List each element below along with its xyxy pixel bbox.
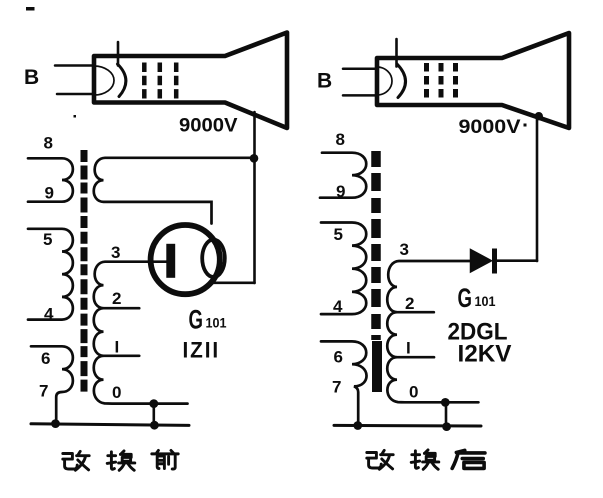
T2 primary winding taps 5-4: [321, 223, 366, 315]
CRT grid arc: [118, 64, 126, 97]
CRT cathode arc right: [377, 67, 392, 95]
node dot bus right: [442, 422, 451, 431]
svg-text:9000V: 9000V: [179, 115, 238, 137]
svg-text:5: 5: [334, 225, 343, 244]
CRT grid arc right: [397, 64, 406, 98]
CRT grid dashed electrode 1: [142, 63, 147, 99]
svg-text:7: 7: [332, 378, 341, 397]
CRT grid dashed electrode 2: [158, 63, 163, 99]
CRT cathode arc: [94, 66, 114, 95]
char 前: [152, 450, 178, 469]
wire tap 1 right: [397, 356, 434, 359]
wire CRT anode vertical: [253, 112, 256, 283]
node dot tap7/bus: [51, 419, 60, 428]
CRT grid pin: [117, 42, 120, 66]
CRT dashed electrode 2 right: [439, 63, 444, 99]
transformer T2 core: [371, 151, 381, 340]
tube U1 plate bar: [166, 244, 175, 278]
diode D1 2DGL triangle: [471, 250, 492, 273]
wire heater bottom right: [343, 94, 377, 97]
T2 primary winding taps 8-9: [320, 153, 366, 198]
svg-text:B: B: [24, 66, 39, 89]
svg-text:3: 3: [400, 240, 409, 259]
wire tap0 to bus: [153, 404, 156, 425]
svg-text:IZII: IZII: [183, 338, 221, 363]
CRT grid dashed electrode 3: [174, 63, 179, 99]
stray ink dot: [74, 115, 77, 118]
svg-text:101: 101: [475, 293, 496, 309]
node dot bus: [150, 421, 159, 430]
wire heater bottom: [57, 93, 94, 96]
T1 primary winding taps 5-4: [28, 229, 73, 320]
wire tap 1: [104, 354, 140, 357]
svg-text:G: G: [189, 305, 204, 335]
char 换: [107, 451, 135, 470]
svg-text:I2KV: I2KV: [458, 341, 512, 368]
wire diode to anode wire: [495, 259, 538, 262]
wire tap0 to bus right: [445, 402, 448, 427]
wire tube cathode to anode line: [212, 281, 255, 284]
node junction dot: [250, 154, 259, 163]
stray ink mark top-left: [26, 7, 35, 11]
svg-text:6: 6: [334, 348, 343, 367]
svg-text:4: 4: [44, 305, 54, 324]
wire ground bus left: [31, 424, 189, 426]
T1 HV secondary winding taps 3-0: [94, 262, 188, 404]
node dot tap0: [149, 399, 158, 408]
svg-text:8: 8: [336, 130, 345, 149]
T1 primary winding taps 6-7: [31, 346, 73, 423]
T2 primary winding taps 6-7: [321, 341, 367, 425]
svg-text:0: 0: [112, 383, 121, 402]
tube U1 cathode loop: [202, 240, 225, 277]
svg-text:8: 8: [44, 134, 53, 153]
svg-text:9: 9: [336, 182, 345, 201]
node dot tap0 right: [441, 398, 450, 407]
svg-text:7: 7: [39, 382, 48, 401]
char 改 right: [367, 450, 393, 469]
CRT V1 envelope (neck + funnel): [94, 33, 287, 129]
CRT V2 envelope: [377, 33, 569, 128]
T1 secondary filament winding + top lead: [94, 158, 254, 224]
wire tap 2: [104, 307, 140, 310]
transformer T1 core: [81, 150, 88, 393]
char 后 right: [452, 450, 485, 468]
svg-text:B: B: [317, 70, 332, 93]
caption 改换前: [63, 450, 178, 470]
svg-text:0: 0: [409, 383, 418, 402]
wire heater top right: [343, 67, 377, 70]
stray dot after 9000V: [524, 124, 527, 127]
node dot tap7 bus right: [353, 421, 362, 430]
node anode dot right: [535, 112, 543, 120]
rectifier tube U1 envelope: [151, 225, 220, 294]
svg-text:2: 2: [112, 289, 121, 308]
svg-text:G: G: [458, 283, 473, 313]
CRT grid pin right: [395, 39, 398, 67]
svg-text:I: I: [115, 338, 120, 357]
T1 primary winding taps 8-9: [28, 158, 73, 201]
wire heater top: [55, 64, 94, 67]
svg-text:3: 3: [111, 243, 120, 262]
char 改: [63, 451, 89, 470]
svg-text:9: 9: [45, 184, 54, 203]
svg-text:2: 2: [405, 294, 414, 313]
wire tap 2 right: [397, 311, 434, 314]
T2 HV secondary winding taps 3-0: [387, 261, 478, 402]
CRT dashed electrode 3 right: [453, 63, 458, 99]
char 换 right: [411, 450, 439, 469]
svg-text:4: 4: [333, 297, 343, 316]
svg-text:5: 5: [43, 230, 52, 249]
CRT dashed electrode 1 right: [424, 63, 429, 99]
svg-text:I: I: [406, 339, 411, 358]
svg-text:101: 101: [206, 315, 227, 331]
wire ground bus right: [334, 424, 481, 428]
wire CRT anode vertical right: [536, 114, 539, 261]
diode D1 cathode bar: [492, 249, 497, 274]
svg-text:6: 6: [41, 349, 50, 368]
svg-text:9000V: 9000V: [459, 116, 521, 138]
caption 改换后: [367, 450, 485, 469]
